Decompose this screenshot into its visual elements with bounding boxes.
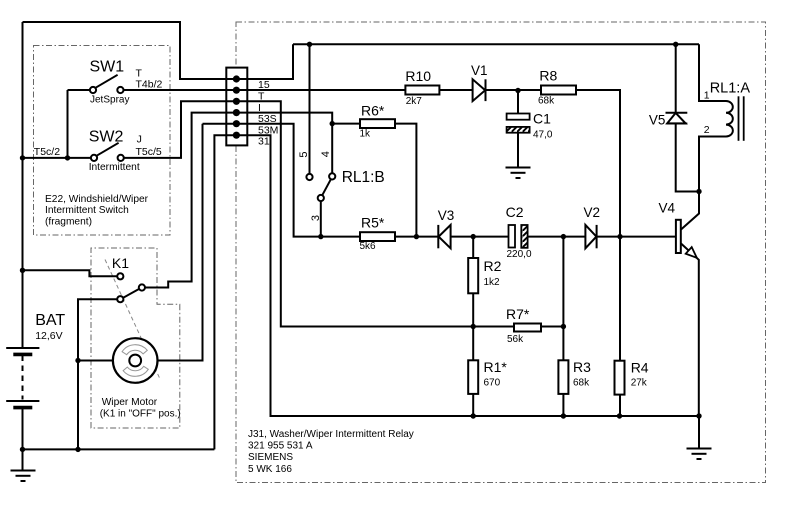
svg-text:V1: V1 — [471, 63, 488, 78]
svg-text:321 955 531 A: 321 955 531 A — [248, 441, 313, 452]
svg-text:56k: 56k — [507, 334, 524, 345]
svg-text:T5c/2: T5c/2 — [34, 146, 60, 158]
svg-text:68k: 68k — [538, 95, 555, 106]
svg-text:1: 1 — [704, 90, 710, 102]
svg-text:5 WK 166: 5 WK 166 — [248, 464, 292, 475]
svg-text:C1: C1 — [533, 111, 551, 127]
svg-text:1k2: 1k2 — [484, 277, 501, 288]
svg-text:J: J — [137, 133, 142, 145]
svg-text:SW1: SW1 — [90, 59, 125, 76]
svg-text:R2: R2 — [484, 258, 502, 274]
svg-text:JetSpray: JetSpray — [90, 94, 129, 105]
svg-text:220,0: 220,0 — [507, 249, 532, 260]
svg-text:4: 4 — [320, 151, 332, 157]
svg-text:(fragment): (fragment) — [45, 216, 92, 227]
svg-text:47,0: 47,0 — [533, 130, 553, 141]
svg-text:5: 5 — [298, 151, 310, 157]
svg-text:SIEMENS: SIEMENS — [248, 452, 293, 463]
svg-text:T4b/2: T4b/2 — [136, 78, 163, 90]
svg-text:R10: R10 — [405, 68, 431, 84]
svg-text:12,6V: 12,6V — [35, 330, 62, 342]
svg-text:53M: 53M — [258, 124, 278, 136]
svg-text:53S: 53S — [258, 113, 277, 125]
svg-text:R7*: R7* — [506, 306, 530, 322]
svg-text:15: 15 — [258, 79, 270, 91]
svg-text:R3: R3 — [573, 359, 591, 375]
svg-text:R1*: R1* — [484, 359, 508, 375]
svg-text:J31, Washer/Wiper Intermittent: J31, Washer/Wiper Intermittent Relay — [248, 429, 414, 440]
svg-text:E22, Windshield/Wiper: E22, Windshield/Wiper — [45, 194, 149, 205]
svg-text:SW2: SW2 — [89, 128, 124, 145]
svg-text:27k: 27k — [631, 378, 648, 389]
svg-text:C2: C2 — [506, 204, 524, 220]
svg-text:V3: V3 — [438, 208, 455, 223]
svg-text:2: 2 — [704, 124, 710, 136]
svg-text:68k: 68k — [573, 378, 590, 389]
svg-text:2k7: 2k7 — [406, 96, 423, 107]
svg-text:BAT: BAT — [35, 312, 65, 329]
svg-text:(K1 in "OFF" pos.): (K1 in "OFF" pos.) — [100, 408, 181, 419]
svg-text:R8: R8 — [539, 68, 557, 84]
svg-text:Intermittent: Intermittent — [89, 162, 140, 173]
svg-text:Wiper Motor: Wiper Motor — [102, 397, 158, 408]
svg-text:I: I — [258, 102, 261, 114]
svg-text:V2: V2 — [584, 205, 601, 220]
svg-text:T5c/5: T5c/5 — [136, 146, 162, 158]
svg-text:T: T — [258, 91, 265, 103]
svg-text:K1: K1 — [112, 255, 129, 271]
svg-text:R5*: R5* — [361, 215, 385, 231]
svg-text:R6*: R6* — [361, 103, 385, 119]
svg-text:R4: R4 — [631, 359, 649, 375]
svg-text:Intermittent Switch: Intermittent Switch — [45, 205, 129, 216]
svg-text:5k6: 5k6 — [360, 241, 377, 252]
svg-text:670: 670 — [484, 378, 501, 389]
svg-text:V5: V5 — [649, 113, 666, 128]
svg-text:31: 31 — [258, 136, 270, 148]
svg-text:1k: 1k — [360, 128, 372, 139]
svg-text:RL1:B: RL1:B — [342, 169, 385, 186]
svg-text:V4: V4 — [659, 201, 676, 216]
svg-text:3: 3 — [310, 215, 322, 221]
svg-text:RL1:A: RL1:A — [710, 81, 751, 97]
